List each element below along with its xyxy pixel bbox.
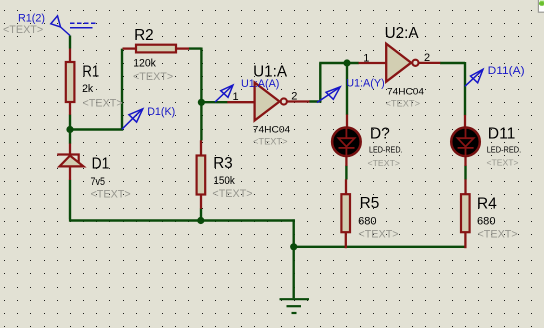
- svg-text:D11: D11: [488, 126, 516, 143]
- svg-text:2: 2: [424, 52, 430, 64]
- svg-text:R1(2): R1(2): [18, 13, 45, 25]
- svg-text:7v5: 7v5: [91, 176, 106, 188]
- svg-text:R1: R1: [82, 64, 99, 81]
- svg-text:R5: R5: [360, 195, 380, 212]
- svg-text:680: 680: [477, 215, 496, 227]
- svg-text:<TEXT>: <TEXT>: [212, 188, 252, 200]
- svg-text:1: 1: [363, 52, 369, 64]
- svg-text:D?: D?: [370, 125, 390, 142]
- svg-text:D1(K): D1(K): [147, 106, 175, 118]
- svg-text:74HC04: 74HC04: [253, 125, 291, 136]
- svg-text:2k: 2k: [82, 83, 93, 95]
- svg-text:74HC04: 74HC04: [387, 86, 425, 97]
- svg-text:R3: R3: [213, 155, 232, 172]
- svg-text:680: 680: [358, 215, 377, 227]
- svg-text:<TEXT>: <TEXT>: [368, 158, 401, 168]
- svg-text:<TEXT>: <TEXT>: [133, 71, 173, 83]
- svg-text:2: 2: [291, 90, 297, 102]
- svg-text:<TEXT>: <TEXT>: [91, 188, 131, 200]
- svg-text:U1:A(Y): U1:A(Y): [346, 78, 385, 90]
- svg-text:<TEXT>: <TEXT>: [83, 98, 123, 110]
- svg-text:D1: D1: [92, 156, 110, 173]
- svg-text:1: 1: [233, 91, 239, 103]
- svg-text:<TEXT>: <TEXT>: [386, 98, 421, 108]
- svg-text:R2: R2: [134, 27, 154, 44]
- svg-text:<TEXT>: <TEXT>: [478, 229, 518, 241]
- svg-text:<TEXT>: <TEXT>: [3, 24, 43, 36]
- svg-text:U2:A: U2:A: [385, 25, 420, 42]
- svg-text:<TEXT>: <TEXT>: [487, 158, 519, 168]
- svg-text:D11(A): D11(A): [488, 65, 525, 77]
- svg-text:150k: 150k: [213, 175, 235, 187]
- svg-text:U1:A(A): U1:A(A): [241, 78, 279, 90]
- svg-text:<TEXT>: <TEXT>: [253, 136, 288, 146]
- svg-text:<TEXT>: <TEXT>: [358, 229, 398, 241]
- svg-text:120k: 120k: [133, 58, 156, 70]
- svg-text:LED-RED.: LED-RED.: [369, 145, 403, 155]
- svg-text:LED-RED.: LED-RED.: [487, 145, 522, 155]
- svg-text:R4: R4: [477, 195, 497, 212]
